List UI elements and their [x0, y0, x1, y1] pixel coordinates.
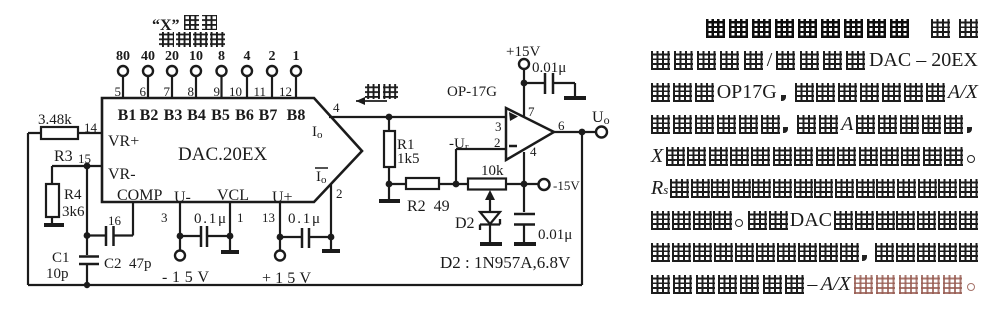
svg-text:D2 : 1N957A,6.8V: D2 : 1N957A,6.8V [440, 253, 571, 272]
digital input terminal 2 [267, 66, 277, 98]
svg-text:C2 47p: C2 47p [104, 256, 152, 272]
svg-text:7: 7 [528, 104, 535, 119]
svg-text:COMP: COMP [117, 187, 162, 204]
op-amp U2 OP-17G triangle [506, 108, 554, 160]
svg-text:0.01μ: 0.01μ [538, 227, 572, 243]
wire rail to potentiometer [456, 183, 539, 185]
node C2 junction [84, 232, 91, 239]
node R1 top junction [386, 114, 393, 121]
svg-text:B7: B7 [259, 107, 278, 124]
DAC U1 DAC.20EX outline [102, 98, 362, 202]
svg-text:9: 9 [214, 84, 221, 99]
svg-text:B4: B4 [187, 107, 206, 124]
node rail C1 junction [84, 282, 90, 288]
svg-text:10: 10 [189, 49, 203, 64]
node pin3 -15V junction [177, 233, 184, 240]
svg-text:10p: 10p [46, 266, 69, 282]
svg-text:8: 8 [218, 49, 225, 64]
svg-text:1: 1 [293, 49, 300, 64]
wire VCL pin1 to ground [229, 202, 231, 250]
digital input terminal 10 [191, 66, 201, 98]
ground under R4 [44, 223, 64, 227]
digital input terminal 1 [291, 66, 301, 98]
svg-text:+15V: +15V [262, 270, 311, 287]
ground top right [564, 96, 586, 100]
svg-text:-Ur: -Ur [449, 136, 469, 153]
svg-text:U-: U- [174, 189, 191, 206]
constant-current arrow [356, 100, 387, 102]
resistor R2 49 [389, 178, 456, 189]
svg-text:-15V: -15V [162, 269, 209, 286]
terminal -15V right [539, 179, 550, 190]
svg-text:2: 2 [269, 49, 276, 64]
svg-text:4: 4 [333, 100, 340, 115]
svg-text:14: 14 [84, 120, 98, 135]
svg-text:R2 49: R2 49 [407, 198, 450, 215]
svg-text:6: 6 [140, 84, 147, 99]
terminal +15V bottom [275, 251, 285, 261]
capacitor 0.01u top [524, 73, 575, 96]
svg-text:1k5: 1k5 [397, 151, 420, 167]
svg-text:15: 15 [78, 151, 91, 166]
wire U+ pin13 down [279, 202, 281, 250]
svg-text:+15V: +15V [506, 44, 540, 60]
resistor R1 1k5 [384, 117, 395, 184]
svg-text:12: 12 [279, 84, 292, 99]
labels B1-B8 [118, 107, 306, 124]
capacitor C2 47p [87, 226, 133, 246]
svg-text:5: 5 [115, 84, 122, 99]
svg-text:B1: B1 [118, 107, 137, 124]
svg-text:R4: R4 [64, 187, 82, 203]
ground under D2 [480, 242, 502, 246]
svg-text:7: 7 [164, 84, 171, 99]
wire left vertical feedback rail [27, 133, 29, 285]
ground under R1 node [379, 184, 400, 201]
svg-text:VR-: VR- [108, 166, 136, 183]
svg-text:13: 13 [262, 210, 275, 225]
label "X" divisor header [152, 15, 217, 34]
capacitor 0.1u left [180, 226, 230, 247]
svg-text:R3: R3 [54, 148, 73, 165]
capacitor 0.1u right [280, 228, 331, 248]
svg-text:2: 2 [494, 135, 501, 150]
wire op-amp pin2 corner -Ur [456, 149, 506, 184]
wire node15 vertical to C1 [86, 166, 88, 255]
node cap pin2line junction [328, 234, 335, 241]
labels digital weights [116, 49, 300, 64]
wire pin4 Io to op-amp input [329, 116, 506, 118]
terminal Uo [596, 127, 607, 138]
digital input terminal 80 [118, 66, 128, 98]
node cap VCL junction [227, 233, 234, 240]
ground pin2 line [322, 249, 340, 253]
wire U- pin3 down [179, 202, 181, 250]
svg-text:B8: B8 [287, 107, 306, 124]
zener diode D2 [480, 212, 500, 242]
svg-text:B3: B3 [164, 107, 183, 124]
digital input terminal 40 [143, 66, 153, 98]
op-amp minus input mark [509, 145, 517, 148]
digital input terminal 4 [242, 66, 252, 98]
svg-text:U+: U+ [272, 189, 293, 206]
svg-text:Io: Io [312, 124, 323, 141]
label digital input header [159, 32, 225, 47]
wire right vertical from Uo node [581, 132, 583, 285]
capacitor 0.01u bottom [514, 184, 535, 242]
label constant (hanzi) [365, 84, 398, 99]
digital input terminal 8 [217, 66, 227, 98]
op-amp plus input mark [509, 112, 518, 121]
svg-text:VR+: VR+ [108, 133, 139, 150]
svg-text:10: 10 [229, 84, 242, 99]
svg-text:1: 1 [237, 210, 244, 225]
wire op-amp output [554, 131, 596, 133]
svg-text:DAC.20EX: DAC.20EX [178, 144, 267, 165]
svg-text:0.01μ: 0.01μ [532, 60, 566, 76]
terminal +15V top [519, 59, 529, 69]
svg-text:3: 3 [495, 119, 502, 134]
wire COMP pin16 [132, 202, 134, 236]
svg-text:6: 6 [558, 118, 565, 133]
svg-text:11: 11 [253, 84, 266, 99]
right paragraph column [0, 0, 1, 1]
svg-text:Uo: Uo [592, 109, 610, 127]
svg-text:B5: B5 [211, 107, 230, 124]
ground VCL [221, 250, 239, 254]
svg-text:80: 80 [116, 49, 130, 64]
svg-text:D2: D2 [455, 215, 475, 232]
svg-text:8: 8 [188, 84, 195, 99]
svg-text:2: 2 [336, 186, 343, 201]
svg-text:OP-17G: OP-17G [447, 84, 497, 100]
resistor R3 3.48k [28, 127, 102, 139]
wire op-amp pin4 down [523, 152, 525, 184]
wire op-amp pin7 up [523, 69, 525, 117]
svg-text:Io: Io [316, 169, 327, 186]
svg-text:0.1μ: 0.1μ [194, 211, 226, 227]
terminal -15V left [175, 251, 185, 261]
ground under 0.01u bottom [514, 242, 536, 246]
svg-text:16: 16 [108, 213, 122, 228]
potentiometer 10k [468, 179, 506, 213]
node VR- junction [84, 163, 91, 170]
svg-text:C1: C1 [52, 250, 70, 266]
svg-text:3k6: 3k6 [62, 204, 85, 220]
capacitor C1 10p [79, 257, 99, 286]
node pin13 +15V junction [277, 234, 284, 241]
svg-text:4: 4 [244, 49, 251, 64]
potentiometer wiper arrow [485, 190, 495, 200]
svg-text:3: 3 [161, 210, 168, 225]
node R1 bottom junction [386, 181, 393, 188]
svg-text:VCL: VCL [217, 187, 249, 204]
arrowhead constant current [356, 97, 365, 105]
svg-text:B2: B2 [140, 107, 159, 124]
label Io-bar [315, 168, 328, 186]
svg-text:3.48k: 3.48k [38, 112, 72, 128]
wire bottom rail [28, 284, 582, 286]
svg-text:20: 20 [165, 49, 179, 64]
svg-text:B6: B6 [235, 107, 254, 124]
svg-text:“X”: “X” [152, 17, 180, 34]
svg-text:4: 4 [530, 144, 537, 159]
wire pin15 VR- node [52, 166, 102, 184]
node pin4 rail junction [521, 181, 528, 188]
svg-text:-15V: -15V [553, 178, 580, 193]
resistor R4 3k6 [46, 184, 59, 223]
svg-text:40: 40 [141, 49, 155, 64]
node Uo feedback junction [579, 129, 586, 136]
svg-text:0.1μ: 0.1μ [288, 211, 320, 227]
svg-text:10k: 10k [481, 163, 504, 179]
digital input terminal 20 [167, 66, 177, 98]
node +15V top junction [521, 80, 528, 87]
wire Io2 pin2 down [330, 184, 332, 249]
labels top pin numbers [115, 84, 293, 99]
node -Ur rail junction [453, 181, 460, 188]
